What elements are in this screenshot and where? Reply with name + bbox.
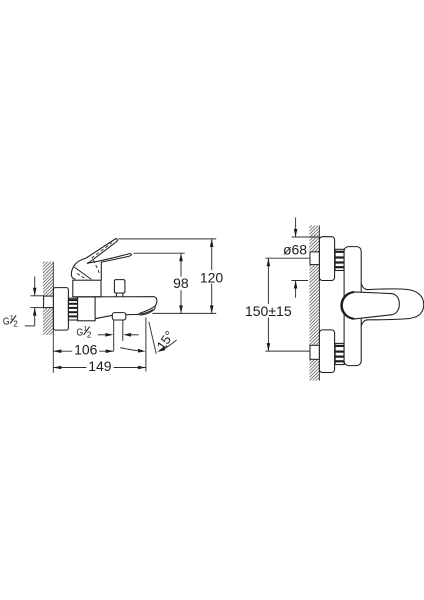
lever handle horizontal position (left view) — [74, 254, 131, 281]
supply square top (right view) — [310, 252, 319, 265]
lever handle raised position (left view) — [71, 239, 117, 280]
diameter 68 dimension — [283, 218, 319, 298]
15 degree arc arrow left piece — [120, 348, 145, 353]
valve body (left view) — [78, 297, 96, 321]
15 degree arc arrow right piece — [157, 340, 176, 352]
aerator beak (left view) — [139, 306, 156, 315]
svg-text:G: G — [3, 315, 10, 327]
mixer body (right view) — [344, 247, 361, 366]
knurled check-valve (left view) — [68, 298, 77, 320]
diverter knob (left view) — [114, 280, 125, 297]
svg-text:G: G — [77, 327, 84, 339]
120 dimension — [118, 239, 224, 314]
G1/2 dimension (wall supply) — [25, 276, 44, 326]
wall face line + extension line to 149 dim — [52, 262, 54, 373]
shower outlet collar (left view) — [112, 313, 126, 320]
svg-text:106: 106 — [74, 342, 98, 358]
149 dimension — [53, 358, 146, 374]
svg-text:2: 2 — [87, 331, 92, 340]
bottom reference extension line (spout outlet) — [153, 312, 217, 314]
knurled connector bottom (right view) — [335, 343, 344, 364]
lever (right view front) — [341, 284, 424, 327]
106 dimension — [53, 342, 113, 358]
svg-text:120: 120 — [200, 269, 224, 285]
svg-text:98: 98 — [173, 275, 189, 291]
wall (right view) hatching — [309, 226, 319, 381]
98 dimension — [134, 253, 190, 313]
150 plus-minus 15 dimension — [244, 258, 310, 351]
svg-text:ø68: ø68 — [283, 241, 307, 257]
svg-text:149: 149 — [88, 358, 112, 374]
spout (left view) — [78, 297, 157, 319]
15 degree slanted line — [149, 322, 156, 354]
wall face line (right view) — [318, 226, 320, 381]
cartridge base cap under handle — [73, 280, 101, 297]
svg-text:150±15: 150±15 — [245, 303, 292, 319]
supply square bottom (right view) — [310, 345, 319, 359]
label G1/2 (wall supply) — [3, 315, 18, 329]
spout tip vertical extension line — [145, 318, 147, 372]
escutcheon top (right view) — [319, 237, 334, 281]
label G1/2 (shower outlet) — [77, 326, 92, 340]
wall (left view) hatching — [43, 262, 53, 335]
G1/2 dimension (shower outlet) arrows — [98, 333, 139, 337]
svg-text:2: 2 — [13, 320, 18, 329]
escutcheon (left view) — [53, 288, 68, 331]
shower outlet pipe extension lines — [113, 320, 115, 351]
knurled connector top (right view) — [335, 249, 344, 270]
escutcheon bottom (right view) — [319, 330, 334, 373]
supply square G1/2 (left view) — [44, 296, 54, 308]
